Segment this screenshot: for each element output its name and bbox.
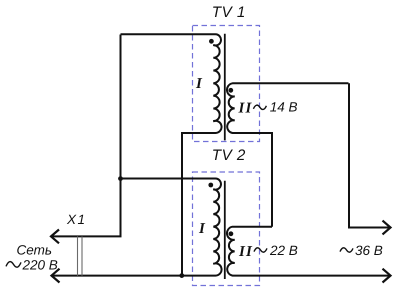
polarity dot TV1 primary — [209, 39, 214, 44]
svg-text:TV 1: TV 1 — [212, 4, 246, 21]
svg-text:TV 2: TV 2 — [212, 147, 246, 164]
svg-text:Сеть: Сеть — [17, 242, 52, 257]
svg-text:II: II — [238, 244, 253, 260]
svg-text:36 В: 36 В — [355, 243, 383, 258]
svg-text:22 В: 22 В — [269, 243, 298, 258]
connector X1 double lines — [77, 236, 79, 275]
arrow output top right — [383, 221, 391, 235]
arrow X1 bottom — [52, 269, 60, 283]
polarity dot TV1 secondary — [228, 88, 233, 93]
transformer TV1 primary winding I with leads — [121, 34, 222, 275]
transformer TV2 secondary winding II with output to lower right arrow — [227, 227, 390, 276]
wire: mains top lead, left drop to X1 — [52, 35, 121, 237]
core TV1 — [224, 34, 226, 141]
svg-text:14 В: 14 В — [270, 100, 298, 115]
tilde for 36 В — [340, 248, 353, 252]
dashed enclosure TV1 — [193, 26, 260, 142]
wire: TV1 secondary output riser to upper right arrow — [349, 83, 390, 227]
svg-text:I: I — [195, 76, 203, 92]
svg-text:I: I — [198, 221, 206, 237]
svg-text:X1: X1 — [66, 212, 87, 227]
transformer TV2 primary winding I with leads and bottom mains wire — [52, 179, 222, 276]
tilde for 220 В — [6, 262, 21, 268]
polarity dot TV2 primary — [208, 183, 213, 188]
junction node at bottom mains — [179, 273, 184, 278]
dashed enclosure TV2 — [193, 172, 260, 286]
svg-text:II: II — [238, 101, 253, 117]
tilde for 14 В — [253, 105, 266, 109]
tilde for 22 В — [254, 248, 267, 252]
svg-text:220 В: 220 В — [22, 258, 58, 273]
arrow X1 top — [51, 230, 59, 244]
core TV2 — [224, 181, 226, 279]
polarity dot TV2 secondary — [229, 231, 234, 236]
transformer TV1 secondary winding II with link down to TV2 — [227, 83, 349, 226]
arrow output bottom right — [383, 269, 391, 283]
junction node at mains branch — [118, 176, 123, 181]
